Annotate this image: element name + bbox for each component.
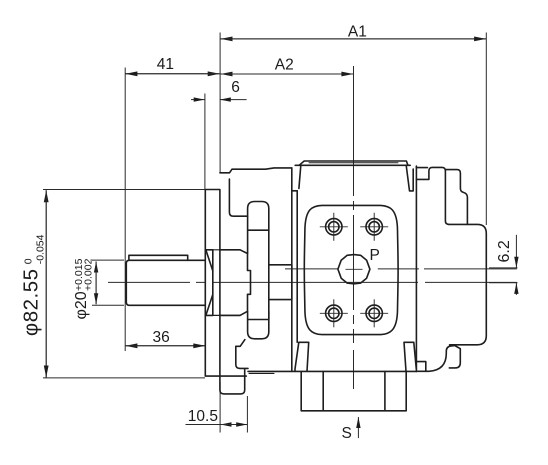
svg-text:36: 36 — [153, 329, 170, 346]
svg-text:6.2: 6.2 — [496, 240, 513, 262]
svg-text:6: 6 — [231, 79, 240, 96]
svg-text:A2: A2 — [275, 57, 294, 74]
svg-text:A1: A1 — [348, 24, 367, 41]
svg-text:φ20: φ20 — [73, 291, 90, 319]
svg-text:41: 41 — [157, 56, 174, 73]
svg-text:+0.002: +0.002 — [83, 258, 95, 291]
svg-text:10.5: 10.5 — [188, 408, 218, 425]
svg-text:-0.054: -0.054 — [35, 234, 47, 264]
svg-text:S: S — [342, 425, 352, 442]
svg-text:φ82.55: φ82.55 — [20, 269, 43, 337]
svg-text:P: P — [370, 247, 380, 264]
svg-text:0: 0 — [22, 258, 34, 264]
